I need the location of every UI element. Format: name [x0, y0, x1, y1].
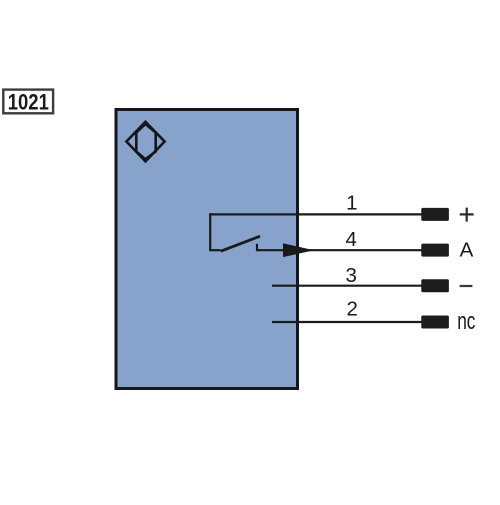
wire pin3 (to terminal minus) [272, 285, 424, 287]
wire pin2 (to terminal nc) [272, 321, 424, 323]
switch blade contact [221, 236, 260, 251]
sensor symbol: outer diamond [126, 122, 164, 162]
terminal block pin 3 [421, 279, 449, 292]
terminal block pin 2 [421, 316, 449, 329]
terminal block pin 1 [421, 208, 449, 221]
sensor body (blue rectangle) [116, 110, 298, 389]
terminal block pin 4 [421, 244, 449, 257]
wire switch vertical drop [209, 213, 211, 250]
wire pin1 (top horizontal to terminal 1) [209, 213, 424, 215]
svg-text:A: A [460, 239, 474, 262]
svg-text:2: 2 [346, 298, 357, 321]
arrow (output direction) [283, 243, 314, 257]
label plus (pin 1) [460, 208, 474, 222]
svg-text:4: 4 [345, 228, 356, 251]
svg-text:1: 1 [346, 191, 357, 214]
svg-text:3: 3 [345, 264, 356, 287]
wire pin4 (from contact through arrow to terminal A) [256, 249, 424, 251]
label minus (pin 3) [460, 285, 473, 287]
figure number box 1021 [3, 90, 53, 115]
svg-text:nc: nc [457, 308, 475, 334]
switch fixed contact stub [256, 244, 258, 250]
wire switch foot [209, 249, 220, 251]
sensor symbol: inner hexagon [136, 124, 155, 159]
svg-text:1021: 1021 [8, 91, 49, 115]
